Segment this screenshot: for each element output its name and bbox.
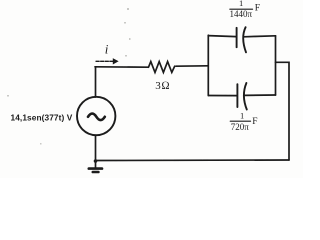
fraction bar bottom label (230, 120, 250, 122)
parallel block bottom edge right part (244, 94, 275, 96)
parallel block bottom edge left part (208, 95, 237, 97)
svg-text:1440π: 1440π (230, 9, 253, 19)
current arrow (96, 60, 115, 62)
wire resistor to parallel block (176, 65, 208, 67)
svg-text:1: 1 (240, 110, 244, 120)
parallel block top edge right part (244, 36, 276, 37)
svg-text:3Ω: 3Ω (155, 80, 170, 92)
junction dot (94, 159, 98, 163)
capacitor C2 left plate (236, 84, 238, 107)
wire below source (95, 135, 97, 160)
svg-text:i: i (105, 41, 109, 56)
wire bottom (96, 159, 290, 162)
svg-text:F: F (255, 4, 260, 14)
fraction bar top label (230, 8, 253, 10)
svg-text:1: 1 (239, 0, 243, 8)
wire left vertical above source (95, 67, 97, 97)
AC source sine symbol (88, 114, 105, 121)
resistor R 3ohm (149, 62, 175, 73)
svg-text:F: F (252, 117, 257, 127)
parallel block left edge (207, 35, 209, 95)
parallel block top edge left part (208, 36, 236, 37)
capacitor C1 left plate (236, 28, 238, 47)
svg-text:14,1sen(377t) V: 14,1sen(377t) V (11, 112, 73, 122)
AC source V1 circle (77, 97, 115, 135)
capacitor C2 right curved plate (244, 83, 247, 110)
ground (95, 161, 97, 169)
parallel block right edge (275, 36, 277, 95)
wire right vertical (276, 62, 290, 160)
wire top from source to resistor (95, 66, 148, 68)
svg-text:720π: 720π (231, 122, 250, 132)
capacitor C1 right curved plate (243, 27, 246, 52)
